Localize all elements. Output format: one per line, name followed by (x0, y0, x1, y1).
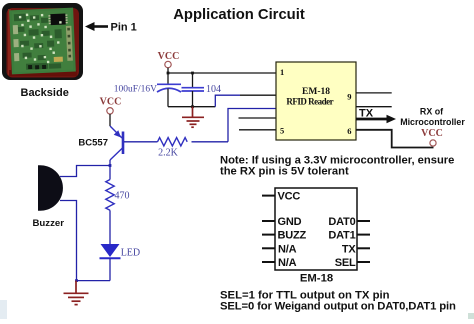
wire resistor to LED (109, 210, 111, 244)
wire pin5 stub N/A (239, 129, 276, 131)
svg-text:RFID Reader: RFID Reader (286, 97, 333, 107)
capacitor C1 100uF/16V (114, 73, 181, 107)
svg-text:EM-18: EM-18 (302, 87, 330, 97)
svg-text:104: 104 (206, 84, 221, 95)
wire pin2 stub (240, 94, 276, 96)
svg-text:2.2K: 2.2K (158, 148, 179, 159)
svg-text:DAT0: DAT0 (328, 216, 355, 228)
svg-text:RX of: RX of (420, 107, 443, 117)
wire to pin2 (GND) (215, 95, 240, 107)
svg-text:TX: TX (342, 243, 357, 255)
svg-text:VCC: VCC (100, 96, 122, 107)
power VCC (RX pullup) (421, 128, 443, 146)
power VCC (filter caps) (158, 51, 180, 73)
pin stub DAT1 (357, 234, 370, 236)
svg-text:BC557: BC557 (78, 138, 108, 149)
transistor Q1 BC557 (PNP) (110, 126, 123, 180)
darker mottling (14, 12, 63, 70)
svg-text:EM-18: EM-18 (300, 273, 333, 285)
pin stub DAT0 (357, 220, 370, 222)
svg-text:6: 6 (347, 126, 351, 136)
pcb pads (19, 12, 64, 64)
wire pin8 stub DAT1 (356, 106, 392, 108)
wire buzzer top to collector (60, 166, 110, 177)
svg-text:GND: GND (278, 216, 302, 228)
resistor R2 470 (106, 180, 114, 211)
IC chip on pcb (50, 13, 65, 25)
pin stub VCC (262, 195, 275, 197)
wire resistor to pin3 riser (192, 141, 229, 143)
svg-text:1: 1 (280, 67, 284, 77)
svg-text:DAT1: DAT1 (328, 230, 355, 242)
ground (filter caps) (182, 107, 204, 128)
pin stub N/A (262, 261, 275, 263)
blue speck bottom-left (0, 300, 7, 319)
wire pin6 to VCC (356, 130, 434, 148)
svg-text:SEL: SEL (335, 257, 356, 269)
wire pin4 stub N/A (239, 117, 277, 119)
pin stub TX (357, 247, 370, 249)
svg-text:Buzzer: Buzzer (33, 218, 65, 229)
power VCC (transistor emitter) (100, 96, 122, 126)
left pads column (13, 25, 18, 34)
junction dot (109, 164, 112, 167)
svg-text:VCC: VCC (421, 128, 443, 139)
junction dot (167, 72, 170, 75)
EM-18 pinout box (262, 188, 370, 270)
svg-text:Pin 1: Pin 1 (111, 22, 137, 34)
svg-text:5: 5 (280, 126, 284, 136)
wire base to resistor (124, 141, 158, 143)
svg-text:TX: TX (359, 108, 374, 120)
svg-text:VCC: VCC (278, 191, 301, 203)
pin stub SEL (357, 261, 370, 263)
buzzer LS1 (38, 165, 63, 211)
dark row bottom (28, 65, 32, 69)
LED D1 (100, 244, 121, 281)
svg-text:SEL=0 for Weigand output on DA: SEL=0 for Weigand output on DAT0,DAT1 pi… (220, 300, 456, 312)
capacitor C2 104 (182, 73, 222, 107)
svg-text:BUZZ: BUZZ (278, 230, 307, 242)
svg-text:N/A: N/A (278, 243, 297, 255)
svg-text:100uF/16V: 100uF/16V (114, 85, 157, 95)
yellow component on pcb (54, 57, 63, 62)
wire cap bottom rail (168, 106, 215, 108)
svg-text:VCC: VCC (158, 51, 180, 62)
junction dot (191, 72, 194, 75)
svg-text:Application Circuit: Application Circuit (173, 7, 305, 23)
EM-18 RFID Reader block U1 (276, 62, 356, 140)
svg-text:Backside: Backside (21, 87, 69, 99)
wire to pin3 (from base resistor) (228, 109, 276, 142)
svg-text:470: 470 (115, 191, 130, 202)
svg-text:LED: LED (121, 248, 140, 259)
right header strip (66, 26, 73, 61)
wire buzzer bottom down (60, 201, 77, 281)
junction dot (75, 279, 78, 282)
resistor R1 2.2K (158, 138, 188, 146)
junction dot (191, 105, 194, 108)
svg-text:9: 9 (347, 92, 351, 102)
svg-text:Microcontroller: Microcontroller (400, 117, 465, 127)
arrow to Pin 1 (85, 22, 108, 31)
wire pin1 VCC rail (168, 72, 276, 74)
svg-text:the RX pin is 5V tolerant: the RX pin is 5V tolerant (220, 165, 349, 177)
TX output arrow (356, 115, 396, 123)
wire bottom rail to ground (77, 280, 111, 282)
pin stub N/A (262, 247, 275, 249)
blue speck bottom-right (468, 313, 474, 319)
PCB module photo (backside) (2, 3, 83, 80)
wire pin9 stub DAT0 (356, 92, 392, 94)
svg-text:N/A: N/A (278, 257, 297, 269)
pin stub BUZZ (262, 234, 275, 236)
pin stub GND (262, 220, 275, 222)
ground (buzzer/LED) (64, 281, 89, 305)
